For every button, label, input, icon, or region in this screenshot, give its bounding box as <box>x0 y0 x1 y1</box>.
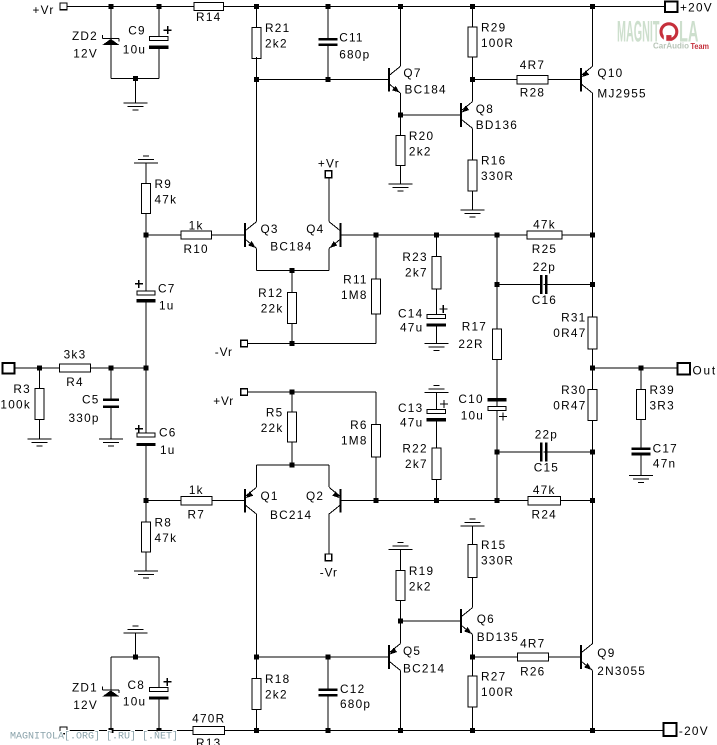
resistor R22 <box>432 448 441 480</box>
junction input/C-line <box>144 366 149 371</box>
svg-text:C16: C16 <box>532 293 557 307</box>
wire ground to R19 <box>399 550 401 571</box>
ground (R20) <box>388 183 412 185</box>
svg-text:2k2: 2k2 <box>265 687 288 701</box>
junction R19/Q5/Q6 <box>398 619 403 624</box>
wire to R28 <box>473 79 518 81</box>
svg-text:C5: C5 <box>82 393 100 407</box>
ground (C14) <box>424 343 448 345</box>
resistor R7 <box>181 497 212 505</box>
wire R21 top <box>256 7 258 28</box>
resistor R3 <box>35 389 44 420</box>
wire C7 top <box>145 235 147 291</box>
svg-text:BC214: BC214 <box>403 662 445 676</box>
resistor R4 <box>60 364 91 372</box>
svg-text:47k: 47k <box>155 193 178 207</box>
wire bias rail <box>257 79 389 81</box>
svg-text:BD135: BD135 <box>477 630 519 644</box>
wire R7 to Q1 base <box>212 500 245 502</box>
junction Q8 emitter node <box>470 77 475 82</box>
svg-text:R17: R17 <box>462 319 487 333</box>
wire R16 bottom <box>472 191 474 210</box>
svg-text:R29: R29 <box>481 20 506 34</box>
svg-text:1u: 1u <box>160 443 176 457</box>
wire R5 top <box>291 392 293 412</box>
wire R28 to Q10 base <box>548 79 581 81</box>
svg-text:100R: 100R <box>481 685 514 699</box>
wire R8 bottom <box>145 552 147 571</box>
wire C5 bottom <box>110 408 112 439</box>
svg-text:R23: R23 <box>402 250 427 264</box>
junction rail/R24 <box>590 498 595 503</box>
wire Q4 collector <box>328 178 330 222</box>
svg-text:R21: R21 <box>265 21 290 35</box>
svg-text:Q5: Q5 <box>403 644 421 658</box>
wire C11 bottom <box>327 46 329 80</box>
terminal -Vr (bottom left) <box>60 727 67 734</box>
junction ZD1 bottom <box>108 728 113 733</box>
transistor Q5 BC214 <box>388 645 390 669</box>
svg-text:R8: R8 <box>155 515 173 529</box>
wire R20 top <box>399 115 401 136</box>
wire R5 bottom <box>291 442 293 465</box>
resistor R5 <box>288 412 297 442</box>
ground (above R15, inverted) <box>470 518 476 520</box>
wire -20V bottom rail (right segment) <box>225 730 664 732</box>
svg-text:0R47: 0R47 <box>553 326 586 340</box>
ground (above R19, inverted) <box>397 542 403 544</box>
wire ZD2-C9 bottom rail <box>111 78 159 80</box>
svg-text:47k: 47k <box>155 531 178 545</box>
wire C17 bottom <box>640 455 642 475</box>
wire Q3/Q4 emitters <box>257 269 330 271</box>
svg-text:3R3: 3R3 <box>650 399 675 413</box>
wire to R10 <box>146 234 181 236</box>
svg-text:12V: 12V <box>73 46 98 60</box>
svg-text:C14: C14 <box>398 306 423 320</box>
junction R7/R8/C6 node <box>144 498 149 503</box>
svg-text:C15: C15 <box>534 461 559 475</box>
junction Q1 collector/R18 <box>254 655 259 660</box>
resistor R19 <box>396 570 405 600</box>
junction rail/C16 <box>590 282 595 287</box>
svg-text:BC184: BC184 <box>270 239 312 253</box>
transistor Q6 BD135 <box>460 609 462 633</box>
zener diode ZD1 <box>103 689 120 691</box>
terminal +Vr (left) <box>241 389 248 396</box>
svg-text:R16: R16 <box>481 154 506 168</box>
svg-text:R27: R27 <box>481 670 506 684</box>
svg-text:R24: R24 <box>532 508 557 522</box>
wire Q1/Q2 emitters <box>257 464 330 466</box>
svg-text:Q4: Q4 <box>306 222 324 236</box>
transistor Q7 BC184 <box>388 68 390 92</box>
svg-text:-Vr: -Vr <box>320 566 338 580</box>
svg-text:Team: Team <box>691 41 710 51</box>
junction rail/C15 <box>590 450 595 455</box>
wire Q8 emitter <box>472 80 474 102</box>
wire output <box>593 367 678 369</box>
wire Q8 collector to R16 <box>472 128 474 160</box>
svg-text:3k3: 3k3 <box>64 348 87 362</box>
wire C14 bottom <box>435 327 437 344</box>
svg-text:-Vr: -Vr <box>215 345 233 359</box>
junction R6/lower wire <box>374 498 379 503</box>
wire R29 bottom <box>472 57 474 80</box>
capacitor C14 <box>427 315 446 328</box>
wire Q3 collector (from bias rail) <box>256 80 258 222</box>
svg-text:R26: R26 <box>520 665 545 679</box>
svg-text:R9: R9 <box>155 177 173 191</box>
wire R15 to Q6 collector <box>472 578 474 608</box>
wire R39 to C17 <box>640 420 642 448</box>
ground (R3) <box>28 438 52 440</box>
svg-text:470R: 470R <box>192 712 225 726</box>
wire R12 bottom <box>291 323 293 343</box>
wire Q2 collector down <box>328 514 330 554</box>
terminal -Vr (left) <box>241 340 248 347</box>
svg-text:Q6: Q6 <box>477 612 495 626</box>
svg-text:22k: 22k <box>261 301 284 315</box>
resistor R8 <box>142 522 151 552</box>
resistor R6 <box>372 425 381 457</box>
junction node R21 top <box>254 4 259 9</box>
junction Q6/R26/R27 <box>470 655 475 660</box>
svg-text:R22: R22 <box>402 442 427 456</box>
junction node C9 top <box>156 4 161 9</box>
svg-text:MAGNITOLA[.ORG] [.RU] [.NET]: MAGNITOLA[.ORG] [.RU] [.NET] <box>10 731 178 743</box>
svg-text:10u: 10u <box>461 408 484 422</box>
wire R18 bottom <box>256 709 258 730</box>
wire R22 bottom <box>435 480 437 501</box>
wire rail to Q9 collector <box>592 501 594 644</box>
resistor R14 <box>194 3 224 11</box>
svg-text:2k7: 2k7 <box>405 265 428 279</box>
svg-text:0R47: 0R47 <box>553 398 586 412</box>
svg-text:+Vr: +Vr <box>33 3 55 17</box>
resistor R9 <box>142 184 151 214</box>
wire +Vr feed <box>247 391 376 393</box>
svg-text:R12: R12 <box>258 286 283 300</box>
wire upper node line (Q4 base to R25) <box>341 234 527 236</box>
wire -Vr feed <box>247 343 376 345</box>
svg-text:C8: C8 <box>128 678 146 692</box>
ground (R16) <box>461 209 485 211</box>
wire R8 top <box>145 501 147 522</box>
svg-text:+Vr: +Vr <box>213 394 234 408</box>
wire C8 top <box>158 657 160 688</box>
svg-text:1k: 1k <box>189 219 204 233</box>
junction rail/R25 <box>590 233 595 238</box>
svg-text:BD136: BD136 <box>476 118 518 132</box>
svg-text:R15: R15 <box>481 538 506 552</box>
wire C12 bottom <box>327 697 329 731</box>
junction C12 top <box>326 655 331 660</box>
svg-text:330p: 330p <box>69 411 100 425</box>
resistor R13 <box>193 726 225 734</box>
wire ground to ZD1/C8 rail <box>135 633 137 657</box>
wire R23 to C14 <box>435 289 437 315</box>
svg-text:Q1: Q1 <box>261 489 279 503</box>
junction bias rail / C11 <box>326 77 331 82</box>
junction R23/upper wire <box>434 233 439 238</box>
wire R27 top <box>472 657 474 676</box>
wire C6 bottom <box>145 446 147 501</box>
svg-text:330R: 330R <box>481 554 514 568</box>
svg-text:R5: R5 <box>266 406 284 420</box>
wire ground to R15 <box>472 526 474 545</box>
resistor R30 <box>588 389 597 420</box>
wire R23 top <box>435 235 437 256</box>
svg-text:10u: 10u <box>123 42 146 56</box>
terminal +20V <box>665 2 678 13</box>
svg-text:47k: 47k <box>533 218 556 232</box>
capacitor C13 <box>427 410 446 423</box>
wire mid vertical line (x=497) <box>496 235 498 501</box>
svg-text:680p: 680p <box>339 48 370 62</box>
capacitor C12 <box>319 689 338 697</box>
junction ZD2/C9 ground node <box>133 76 138 81</box>
wire R18 top <box>256 657 258 678</box>
resistor R18 <box>252 678 261 709</box>
svg-text:R31: R31 <box>561 310 586 324</box>
svg-text:R10: R10 <box>183 242 208 256</box>
wire ZD1 bottom <box>110 697 112 731</box>
wire Q10 emitter to +20V <box>592 7 594 67</box>
transistor Q4 <box>340 223 342 247</box>
wire Q7 emitter to Q8 base <box>400 114 461 116</box>
junction R11/upper wire <box>374 233 379 238</box>
junction C15 left <box>495 450 500 455</box>
wire input <box>15 367 60 369</box>
svg-text:47k: 47k <box>533 483 556 497</box>
svg-text:Q2: Q2 <box>306 489 324 503</box>
svg-text:22p: 22p <box>533 260 556 274</box>
wire R4 to C-line <box>90 367 146 369</box>
transistor Q2 <box>340 489 342 513</box>
wire to C15 <box>497 451 544 453</box>
svg-text:R19: R19 <box>409 564 434 578</box>
wire C5 top <box>110 368 112 399</box>
svg-text:22R: 22R <box>458 337 483 351</box>
wire Q9 emitter down <box>592 670 594 730</box>
capacitor C17 <box>631 448 650 451</box>
junction C16 left <box>495 282 500 287</box>
ground (C5) <box>99 438 123 440</box>
capacitor C6 <box>136 433 155 447</box>
resistor R29 <box>468 27 477 57</box>
junction node R29 top <box>470 4 475 9</box>
svg-text:R11: R11 <box>343 272 368 286</box>
wire R24 to rail <box>561 500 593 502</box>
junction Q7 emitter node <box>398 113 403 118</box>
svg-text:+20V: +20V <box>680 0 713 14</box>
wire R21 bottom <box>256 57 258 80</box>
svg-text:C17: C17 <box>653 441 678 455</box>
resistor R31 <box>588 317 597 349</box>
svg-text:R18: R18 <box>265 672 290 686</box>
wire C6 top <box>145 368 147 433</box>
resistor R21 <box>252 27 261 58</box>
resistor R39 <box>637 390 646 420</box>
junction C5 node <box>109 366 114 371</box>
junction mid-line/upper wire <box>495 233 500 238</box>
resistor R12 <box>288 292 297 323</box>
capacitor C10 <box>487 398 506 401</box>
junction bias rail / R21 <box>254 77 259 82</box>
capacitor C5 <box>103 399 119 409</box>
svg-text:C13: C13 <box>398 401 423 415</box>
junction node ZD2 top <box>108 4 113 9</box>
terminal +Vr (Q4 collector) <box>325 171 332 178</box>
svg-text:R14: R14 <box>196 10 221 24</box>
svg-text:2N3055: 2N3055 <box>597 664 646 678</box>
svg-text:1M8: 1M8 <box>341 288 368 302</box>
junction R5/+Vr <box>290 390 295 395</box>
svg-text:-20V: -20V <box>679 724 709 738</box>
wire R12 top <box>291 270 293 292</box>
svg-text:47n: 47n <box>653 457 676 471</box>
wire R20 bottom <box>399 166 401 184</box>
capacitor C8 <box>149 688 168 701</box>
svg-text:MJ2955: MJ2955 <box>597 87 646 101</box>
wire Q7 collector <box>399 7 401 67</box>
wire Q5 collector down <box>399 670 401 730</box>
svg-text:R7: R7 <box>188 508 206 522</box>
capacitor C15 <box>540 442 548 461</box>
capacitor C7 <box>136 291 155 303</box>
wire to ground <box>135 79 137 103</box>
wire Q7 emitter <box>399 93 401 115</box>
logo MAGNITOLA <box>617 16 709 51</box>
svg-text:C10: C10 <box>458 392 483 406</box>
transistor Q8 BD136 <box>460 103 462 127</box>
resistor R11 <box>372 279 381 314</box>
resistor R16 <box>468 160 477 191</box>
wire to C16 <box>497 283 544 285</box>
ground (above ZD1/C8, inverted) <box>133 625 139 627</box>
capacitor C9 <box>149 36 168 49</box>
wire output node to R30 <box>592 368 594 389</box>
wire R30 bottom <box>592 420 594 452</box>
svg-text:Q9: Q9 <box>597 646 615 660</box>
svg-text:2k2: 2k2 <box>409 145 432 159</box>
junction R39/output <box>639 366 644 371</box>
transistor Q9 2N3055 <box>580 645 582 669</box>
wire lower bias rail (R18/C12/Q5 base) <box>257 656 389 658</box>
junction output node <box>590 366 595 371</box>
junction emitters/R12 <box>290 268 295 273</box>
resistor R28 <box>517 76 548 84</box>
terminal +Vr (top left) <box>60 3 67 10</box>
svg-text:R28: R28 <box>520 86 545 100</box>
svg-text:ZD2: ZD2 <box>72 29 98 43</box>
ground (ZD2/C9) <box>124 102 148 104</box>
svg-text:Out: Out <box>693 364 717 378</box>
wire Q5 emitter up <box>399 621 401 644</box>
wire C7 to input node <box>145 302 147 368</box>
svg-text:Q7: Q7 <box>403 66 421 80</box>
svg-text:2k2: 2k2 <box>265 36 288 50</box>
svg-text:+Vr: +Vr <box>318 157 340 171</box>
wire Q3 emitter down <box>256 248 258 270</box>
resistor R26 <box>517 653 548 661</box>
wire C9 top <box>158 7 160 37</box>
wire R26 to Q9 base <box>548 656 581 658</box>
svg-text:R3: R3 <box>13 382 31 396</box>
wire ZD2 bottom <box>110 45 112 78</box>
svg-text:1k: 1k <box>189 483 204 497</box>
wire C9 bottom <box>158 49 160 79</box>
junction mid-line/lower wire <box>495 498 500 503</box>
wire C11 top <box>327 7 329 39</box>
junction node Q7 collector <box>398 4 403 9</box>
wire ZD1 top <box>110 657 112 690</box>
resistor R17 <box>493 329 502 359</box>
capacitor C16 <box>540 275 548 294</box>
wire -20V bottom rail (left segment) <box>67 730 193 732</box>
junction Q5 collector <box>398 728 403 733</box>
junction Q9 emitter <box>590 728 595 733</box>
wire ZD2 top <box>110 7 112 39</box>
wire Q1 collector down <box>256 514 258 657</box>
svg-text:C6: C6 <box>159 426 177 440</box>
wire C16 to rail <box>544 283 593 285</box>
svg-text:22p: 22p <box>535 428 558 442</box>
svg-text:R13: R13 <box>196 736 221 745</box>
junction R3 node <box>37 366 42 371</box>
junction emitters/R5 <box>290 463 295 468</box>
wire ground to R9 <box>145 163 147 183</box>
wire Q6 emitter down <box>472 634 474 657</box>
wire R6 top <box>375 392 377 425</box>
wire R3 bottom <box>39 420 41 439</box>
wire Q4 emitter down <box>328 248 330 270</box>
wire +20V top rail (left segment) <box>67 6 194 8</box>
wire R39 top <box>640 368 642 390</box>
wire to Q6 base <box>400 620 461 622</box>
svg-text:C12: C12 <box>340 682 365 696</box>
ground (above C13, inverted) <box>433 384 439 386</box>
svg-text:100k: 100k <box>0 398 31 412</box>
svg-text:4R7: 4R7 <box>520 637 545 651</box>
svg-text:C9: C9 <box>128 24 146 38</box>
svg-text:R4: R4 <box>66 375 84 389</box>
wire R3 top <box>39 368 41 389</box>
svg-text:10u: 10u <box>123 695 146 709</box>
svg-text:R20: R20 <box>409 129 434 143</box>
wire to R7 <box>146 500 181 502</box>
resistor R15 <box>468 545 477 578</box>
wire C15 to rail <box>544 451 593 453</box>
svg-text:12V: 12V <box>73 698 98 712</box>
svg-text:22k: 22k <box>261 421 284 435</box>
svg-text:CarAudio: CarAudio <box>653 41 689 51</box>
resistor R10 <box>181 231 212 239</box>
resistor R25 <box>527 231 562 239</box>
svg-text:R39: R39 <box>650 383 675 397</box>
junction C12 bottom <box>326 728 331 733</box>
junction R27 bottom <box>470 728 475 733</box>
junction R18 bottom <box>254 728 259 733</box>
wire R19 bottom <box>399 600 401 621</box>
svg-text:2k2: 2k2 <box>409 579 432 593</box>
wire R6 bottom <box>375 457 377 501</box>
svg-text:100R: 100R <box>481 36 514 50</box>
junction node C11 top <box>326 4 331 9</box>
svg-text:2k7: 2k7 <box>405 457 428 471</box>
capacitor C11 <box>319 38 338 46</box>
